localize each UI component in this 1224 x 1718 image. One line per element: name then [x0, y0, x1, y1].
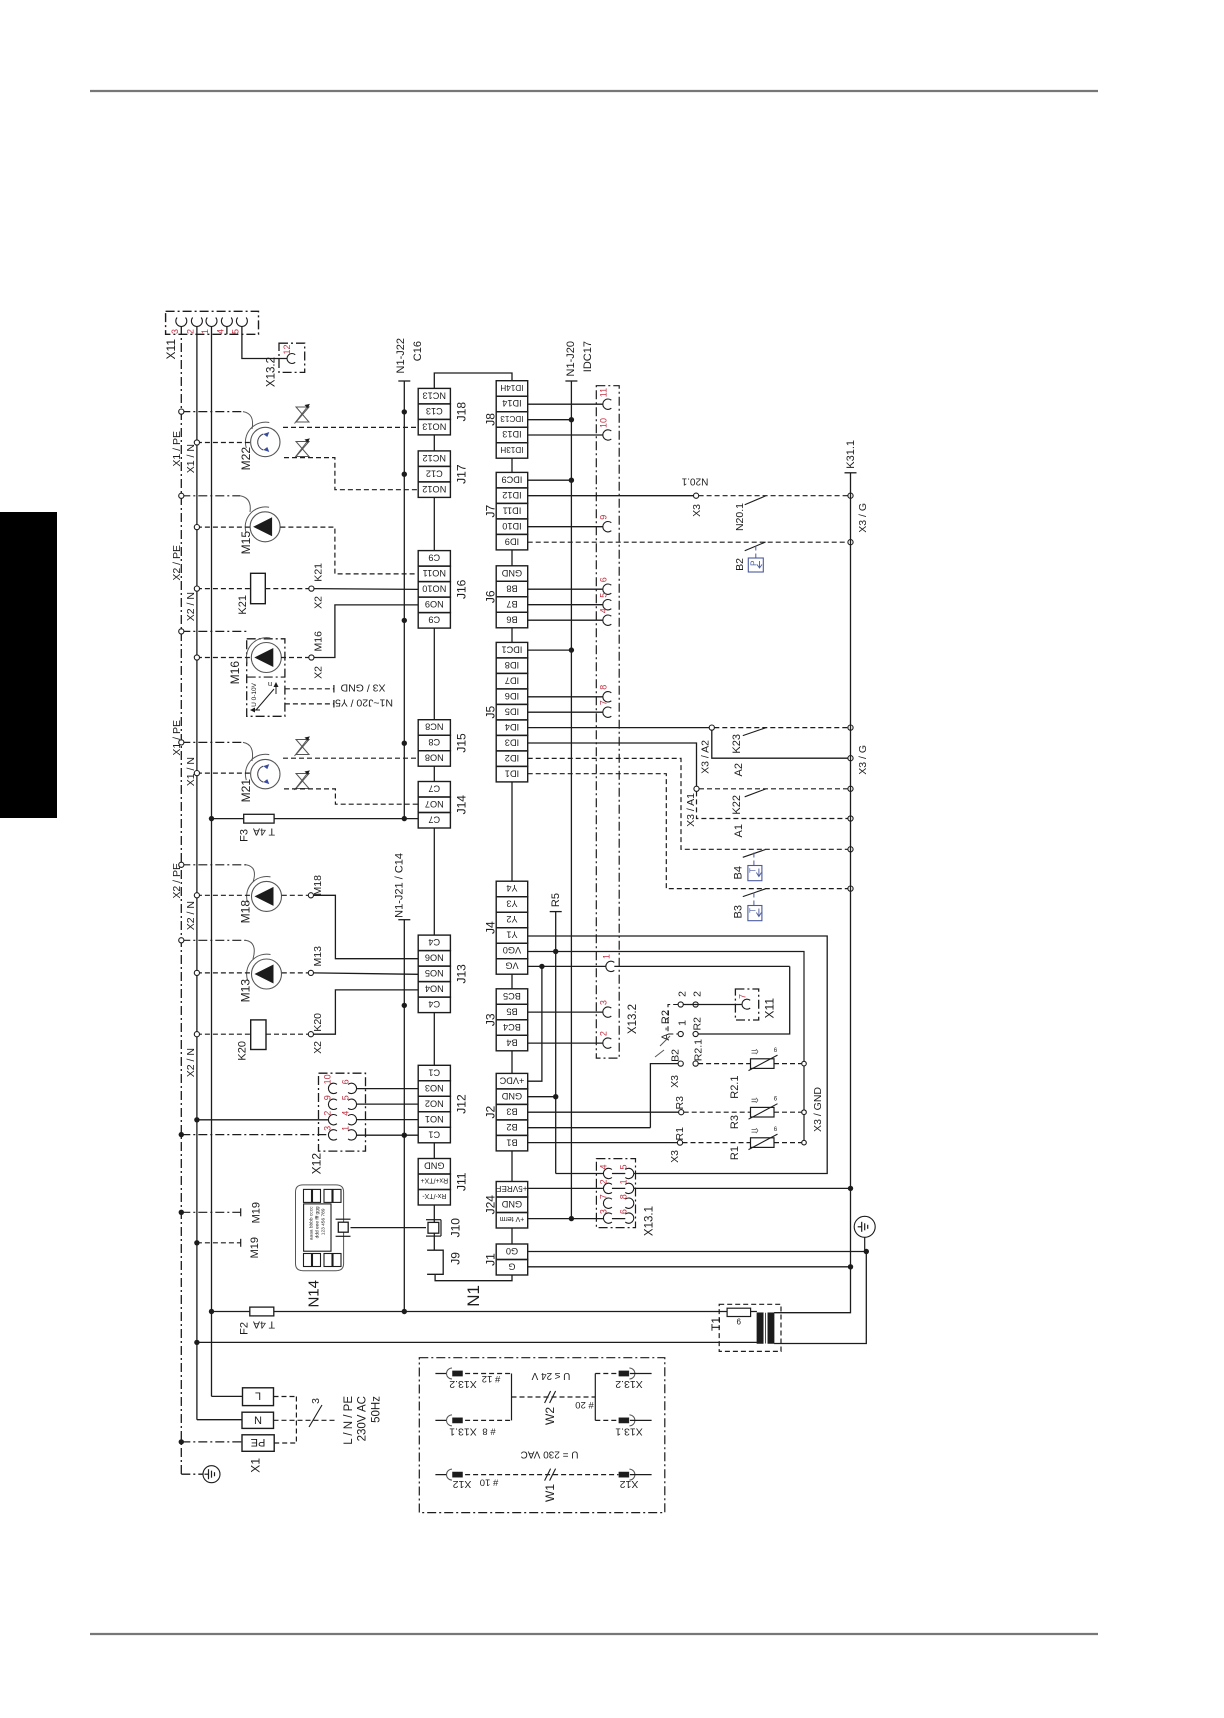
svg-text:BC4: BC4	[503, 1022, 521, 1032]
svg-text:Rx+/TX+: Rx+/TX+	[420, 1176, 448, 1183]
svg-text:C12: C12	[426, 468, 443, 478]
svg-text:J24: J24	[484, 1195, 498, 1215]
svg-text:PE: PE	[251, 1436, 266, 1448]
svg-text:M19: M19	[249, 1237, 261, 1258]
svg-text:C16: C16	[412, 341, 424, 361]
svg-text:NO2: NO2	[425, 1098, 444, 1108]
svg-text:X2 / PE: X2 / PE	[171, 545, 183, 581]
svg-text:2: 2	[599, 1031, 609, 1036]
svg-text:M13: M13	[239, 979, 253, 1003]
svg-text:Y3: Y3	[506, 899, 517, 909]
svg-text:2: 2	[323, 1111, 333, 1116]
svg-text:+5VREF: +5VREF	[496, 1184, 527, 1193]
svg-text:T 4A: T 4A	[253, 826, 275, 838]
svg-text:aaaa bbbb cccc: aaaa bbbb cccc	[309, 1206, 315, 1240]
svg-text:ID8: ID8	[505, 660, 519, 670]
svg-text:X3 / GND: X3 / GND	[812, 1087, 824, 1132]
svg-text:K21: K21	[237, 595, 249, 615]
svg-text:R3: R3	[674, 1096, 686, 1110]
svg-text:1: 1	[340, 1126, 350, 1131]
svg-text:J15: J15	[454, 733, 468, 753]
svg-text:NO8: NO8	[425, 753, 444, 763]
svg-text:B7: B7	[506, 599, 517, 609]
svg-text:X2: X2	[312, 666, 324, 679]
svg-text:J3: J3	[484, 1013, 498, 1026]
svg-text:IDC9: IDC9	[501, 474, 522, 484]
svg-text:M16: M16	[228, 661, 242, 685]
svg-text:7: 7	[738, 994, 748, 999]
svg-text:B2: B2	[669, 1049, 681, 1062]
svg-text:N20.1: N20.1	[734, 503, 746, 531]
svg-text:5: 5	[340, 1095, 350, 1100]
svg-text:NO11: NO11	[423, 568, 446, 578]
svg-text:X1: X1	[249, 1458, 263, 1473]
svg-text:X2: X2	[312, 596, 324, 609]
svg-text:# 12: # 12	[482, 1373, 501, 1384]
svg-text:B3: B3	[506, 1106, 517, 1116]
svg-text:W2: W2	[543, 1407, 557, 1425]
svg-text:X13.2: X13.2	[627, 1004, 639, 1034]
svg-text:R5: R5	[550, 893, 562, 907]
svg-text:C1: C1	[428, 1067, 440, 1077]
svg-text:NO10: NO10	[422, 584, 446, 594]
svg-text:X2 / PE: X2 / PE	[171, 863, 183, 899]
svg-text:N1~J20 / Y5: N1~J20 / Y5	[335, 697, 393, 709]
svg-text:4: 4	[599, 608, 609, 613]
svg-text:50Hz: 50Hz	[370, 1396, 382, 1423]
svg-text:C1: C1	[428, 1129, 440, 1139]
svg-text:# 8: # 8	[482, 1425, 495, 1436]
svg-text:X3 / G: X3 / G	[857, 745, 869, 775]
svg-text:M22: M22	[239, 447, 253, 471]
svg-text:X1 / N: X1 / N	[185, 444, 197, 473]
svg-text:N1-J21 / C14: N1-J21 / C14	[393, 853, 405, 918]
svg-text:3: 3	[323, 1126, 333, 1131]
svg-text:12: 12	[282, 344, 292, 354]
svg-text:1: 1	[619, 1179, 629, 1184]
svg-text:N1-J20: N1-J20	[565, 341, 577, 376]
svg-text:B4: B4	[506, 1037, 517, 1047]
svg-text:ID13H: ID13H	[500, 445, 523, 454]
svg-text:BC5: BC5	[503, 991, 521, 1001]
svg-text:1: 1	[602, 954, 612, 959]
svg-text:J13: J13	[454, 964, 468, 984]
svg-text:U 0-10V: U 0-10V	[251, 682, 258, 707]
svg-text:+V term: +V term	[499, 1215, 524, 1222]
svg-text:9: 9	[736, 1317, 741, 1326]
svg-text:B8: B8	[506, 583, 517, 593]
svg-text:J1: J1	[484, 1253, 498, 1266]
svg-text:123 456 789: 123 456 789	[321, 1208, 327, 1235]
svg-text:NO9: NO9	[425, 599, 444, 609]
svg-text:F2: F2	[238, 1322, 250, 1335]
svg-text:R2.1: R2.1	[692, 1039, 704, 1061]
svg-text:6: 6	[619, 1209, 629, 1214]
svg-text:N20.1: N20.1	[681, 476, 708, 487]
svg-text:4: 4	[340, 1111, 350, 1116]
svg-text:X1 / PE: X1 / PE	[171, 431, 183, 467]
svg-text:ID11: ID11	[503, 505, 522, 515]
svg-text:NC12: NC12	[423, 453, 447, 463]
svg-text:G0: G0	[506, 1246, 518, 1256]
svg-text:J14: J14	[454, 795, 468, 815]
svg-text:6: 6	[340, 1079, 350, 1084]
svg-text:C7: C7	[428, 814, 440, 824]
svg-text:ddd eee fff ggg: ddd eee fff ggg	[315, 1206, 321, 1238]
svg-text:F3: F3	[238, 829, 250, 842]
svg-text:NC13: NC13	[423, 390, 447, 400]
svg-text:# 20: # 20	[575, 1399, 594, 1410]
svg-text:B3: B3	[732, 905, 744, 918]
svg-text:C4: C4	[428, 937, 440, 947]
svg-text:J11: J11	[454, 1172, 468, 1191]
svg-text:N1: N1	[464, 1285, 483, 1307]
svg-text:M18: M18	[312, 875, 324, 896]
svg-text:X13.2: X13.2	[615, 1378, 643, 1390]
svg-text:# 10: # 10	[480, 1477, 499, 1488]
svg-text:X3 / G: X3 / G	[857, 503, 869, 533]
svg-text:A2: A2	[733, 763, 745, 776]
svg-text:Y2: Y2	[506, 914, 517, 924]
svg-text:N1-J22: N1-J22	[395, 338, 407, 373]
svg-text:ID14: ID14	[502, 398, 521, 408]
svg-text:2: 2	[691, 991, 703, 997]
svg-text:ID7: ID7	[505, 675, 519, 685]
svg-text:ID6: ID6	[505, 691, 519, 701]
svg-text:IDC1: IDC1	[501, 644, 522, 654]
svg-text:NO5: NO5	[425, 968, 444, 978]
svg-text:M21: M21	[239, 779, 253, 803]
svg-text:J6: J6	[484, 590, 498, 603]
svg-text:9: 9	[599, 515, 609, 520]
svg-text:NO6: NO6	[425, 953, 444, 963]
svg-text:X3 / A2: X3 / A2	[699, 740, 711, 774]
svg-text:X13.2: X13.2	[449, 1378, 477, 1390]
svg-text:J16: J16	[454, 579, 468, 599]
svg-text:9: 9	[323, 1095, 333, 1100]
svg-text:10: 10	[599, 418, 609, 428]
svg-text:K20: K20	[312, 1013, 324, 1032]
svg-text:3: 3	[310, 1398, 322, 1404]
svg-text:M19: M19	[250, 1202, 262, 1223]
svg-text:J2: J2	[484, 1105, 498, 1118]
svg-text:1: 1	[676, 1020, 688, 1026]
svg-text:X13.1: X13.1	[615, 1426, 643, 1438]
svg-text:J8: J8	[484, 413, 498, 426]
svg-text:X12: X12	[310, 1153, 324, 1175]
svg-text:K22: K22	[731, 795, 743, 815]
svg-text:C4: C4	[428, 999, 440, 1009]
svg-text:C9: C9	[428, 615, 440, 625]
svg-text:230V AC: 230V AC	[357, 1396, 369, 1441]
svg-text:10: 10	[323, 1074, 333, 1084]
svg-text:M13: M13	[312, 946, 324, 967]
svg-text:3: 3	[599, 1209, 609, 1214]
svg-text:J10: J10	[449, 1218, 463, 1238]
svg-text:VG0: VG0	[503, 945, 521, 955]
svg-text:X2 / N: X2 / N	[185, 901, 197, 930]
svg-text:C7: C7	[428, 783, 440, 793]
svg-text:X13.1: X13.1	[644, 1206, 656, 1236]
svg-text:8: 8	[619, 1194, 629, 1199]
svg-text:X13.2: X13.2	[266, 357, 278, 387]
svg-text:B1: B1	[506, 1137, 517, 1147]
svg-text:NO13: NO13	[422, 421, 446, 431]
svg-text:R1: R1	[729, 1146, 741, 1160]
svg-text:J12: J12	[454, 1094, 468, 1114]
svg-text:Y1: Y1	[506, 930, 517, 940]
svg-text:X2 / N: X2 / N	[185, 592, 197, 621]
svg-text:U = 230 VAC: U = 230 VAC	[521, 1449, 579, 1460]
svg-text:C13: C13	[426, 406, 443, 416]
svg-text:GND: GND	[501, 568, 522, 578]
svg-text:T: T	[749, 868, 758, 873]
svg-text:M16: M16	[312, 631, 324, 652]
svg-text:T: T	[749, 908, 758, 913]
svg-text:M18: M18	[239, 900, 253, 924]
svg-text:X3: X3	[669, 1150, 681, 1163]
svg-text:N: N	[254, 1413, 262, 1425]
svg-text:X1 / PE: X1 / PE	[171, 720, 183, 756]
svg-text:ID12: ID12	[502, 490, 521, 500]
svg-text:X12: X12	[453, 1478, 472, 1490]
svg-text:R2: R2	[691, 1017, 703, 1031]
svg-text:J7: J7	[484, 504, 498, 517]
svg-text:C8: C8	[428, 737, 440, 747]
svg-text:NO1: NO1	[425, 1114, 444, 1124]
svg-text:C9: C9	[428, 553, 440, 563]
svg-text:GND: GND	[501, 1199, 522, 1209]
svg-text:J4: J4	[484, 921, 498, 934]
svg-text:R2.1: R2.1	[729, 1076, 741, 1099]
svg-text:L / N / PE: L / N / PE	[343, 1396, 355, 1445]
svg-text:5: 5	[599, 593, 609, 598]
svg-text:X2: X2	[312, 1041, 324, 1054]
svg-text:X3: X3	[669, 1075, 681, 1088]
svg-text:ID1: ID1	[505, 768, 519, 778]
svg-text:K23: K23	[731, 734, 743, 754]
svg-text:1: 1	[200, 329, 210, 334]
svg-text:ID10: ID10	[502, 521, 521, 531]
svg-text:6: 6	[599, 577, 609, 582]
svg-text:B2: B2	[734, 558, 746, 571]
svg-text:3: 3	[170, 329, 180, 334]
svg-text:NO7: NO7	[425, 799, 444, 809]
svg-text:NO4: NO4	[425, 984, 444, 994]
svg-text:X11: X11	[164, 339, 178, 360]
svg-text:ID2: ID2	[505, 753, 519, 763]
svg-text:ID9: ID9	[505, 536, 519, 546]
svg-text:J17: J17	[454, 464, 468, 484]
svg-text:K31.1: K31.1	[845, 440, 857, 469]
svg-text:7: 7	[599, 700, 609, 705]
svg-text:B5: B5	[506, 1006, 517, 1016]
svg-text:n: n	[268, 680, 272, 689]
svg-text:ID5: ID5	[505, 706, 519, 716]
svg-text:K21: K21	[312, 563, 324, 582]
svg-text:ID3: ID3	[505, 737, 519, 747]
svg-text:ID13: ID13	[502, 429, 521, 439]
svg-text:3: 3	[599, 1000, 609, 1005]
svg-text:R3: R3	[729, 1115, 741, 1129]
svg-text:2: 2	[185, 329, 195, 334]
svg-text:7: 7	[599, 1194, 609, 1199]
svg-text:G: G	[508, 1261, 515, 1271]
svg-text:J18: J18	[454, 402, 468, 422]
svg-text:GND: GND	[424, 1160, 445, 1170]
svg-text:+VDC: +VDC	[499, 1075, 524, 1085]
svg-text:M15: M15	[239, 531, 253, 555]
svg-text:2: 2	[599, 1179, 609, 1184]
svg-text:GND: GND	[501, 1091, 522, 1101]
svg-text:5: 5	[619, 1164, 629, 1169]
svg-text:L: L	[255, 1390, 261, 1402]
svg-text:T 4A: T 4A	[253, 1319, 275, 1331]
svg-text:IDC13: IDC13	[500, 414, 524, 423]
svg-text:N14: N14	[305, 1280, 322, 1308]
svg-text:5: 5	[230, 329, 240, 334]
svg-text:A1: A1	[733, 824, 745, 837]
svg-text:B2: B2	[506, 1122, 517, 1132]
svg-text:X3 / GND: X3 / GND	[340, 682, 385, 694]
svg-text:Rx-/TX-: Rx-/TX-	[422, 1192, 447, 1199]
svg-text:U ≤ 24 V: U ≤ 24 V	[531, 1370, 570, 1381]
svg-text:NC8: NC8	[425, 722, 443, 732]
svg-text:X11: X11	[763, 998, 777, 1019]
svg-text:W1: W1	[543, 1484, 557, 1502]
svg-text:K20: K20	[237, 1041, 249, 1061]
svg-text:X3: X3	[691, 504, 703, 517]
svg-text:11: 11	[599, 388, 609, 397]
svg-text:B6: B6	[506, 614, 517, 624]
svg-text:X2 / N: X2 / N	[185, 1048, 197, 1077]
svg-text:X13.1: X13.1	[449, 1426, 477, 1438]
svg-text:X12: X12	[620, 1478, 639, 1490]
svg-text:NO3: NO3	[425, 1083, 444, 1093]
svg-text:J5: J5	[484, 705, 498, 718]
svg-text:4: 4	[215, 329, 225, 334]
svg-text:2: 2	[676, 991, 688, 997]
svg-text:ID4: ID4	[505, 722, 519, 732]
svg-text:J9: J9	[449, 1252, 463, 1265]
svg-text:8: 8	[599, 685, 609, 690]
svg-text:X3 / A1: X3 / A1	[685, 793, 697, 827]
svg-text:IDC17: IDC17	[582, 341, 594, 372]
svg-text:4: 4	[599, 1164, 609, 1169]
svg-text:T1: T1	[709, 1317, 723, 1331]
svg-text:VG: VG	[505, 961, 518, 971]
svg-text:NO12: NO12	[422, 484, 446, 494]
svg-text:B4: B4	[732, 866, 744, 879]
svg-text:R1: R1	[674, 1127, 686, 1141]
svg-text:Y4: Y4	[506, 883, 517, 893]
svg-text:ID14H: ID14H	[500, 383, 523, 392]
